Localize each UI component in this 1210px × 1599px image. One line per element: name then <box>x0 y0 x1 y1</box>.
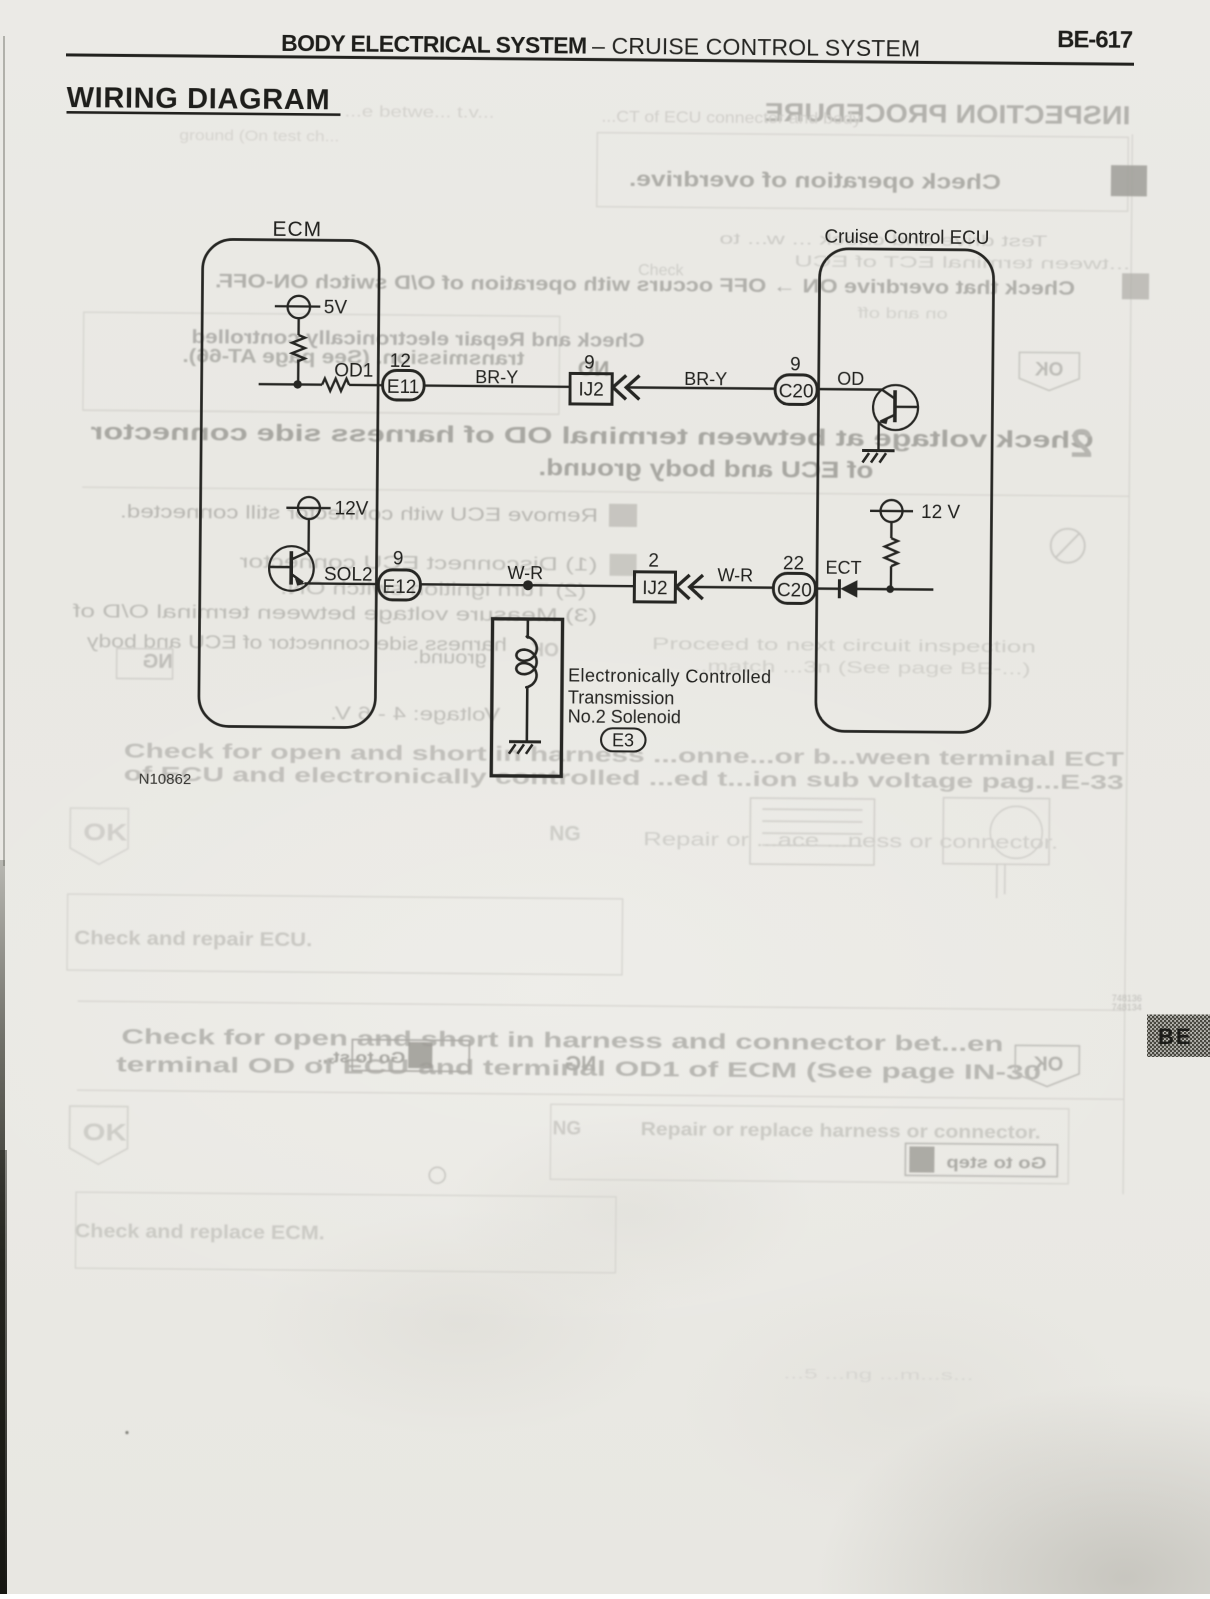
power supply 12 V in cruise ECU <box>870 500 961 523</box>
svg-text:BR-Y: BR-Y <box>475 367 518 387</box>
connector C20 pin 22 <box>773 553 815 603</box>
wire OD1 to E11 <box>349 384 382 387</box>
svg-text:12 V: 12 V <box>921 502 961 523</box>
svg-text:Go to st...: Go to st... <box>317 1049 405 1067</box>
svg-text:WIRING DIAGRAM: WIRING DIAGRAM <box>66 82 329 116</box>
svg-text:OD: OD <box>837 369 864 389</box>
svg-text:NG: NG <box>143 651 173 673</box>
node junction at OD1 <box>293 380 301 388</box>
wire 5V to resistor <box>297 318 300 335</box>
wire E12 to IJ2 label W-R <box>420 584 634 586</box>
svg-text:5V: 5V <box>324 297 348 318</box>
svg-text:OK: OK <box>82 1119 127 1146</box>
svg-text:– CRUISE CONTROL SYSTEM: – CRUISE CONTROL SYSTEM <box>592 33 920 62</box>
svg-text:IJ2: IJ2 <box>642 578 668 599</box>
ECM block box <box>199 239 380 728</box>
power supply 12V in ECM <box>286 497 369 520</box>
node junction to solenoid <box>523 580 533 590</box>
ground at solenoid <box>509 742 541 754</box>
wire diode to right stub <box>857 588 933 591</box>
wire C20 to transistor, label OD <box>817 388 882 391</box>
wire IJ2 to C20 label BR-Y <box>625 387 775 388</box>
svg-text:IJ2: IJ2 <box>578 379 604 400</box>
transistor Q1 in cruise ECU <box>873 385 918 430</box>
svg-text:22: 22 <box>783 553 804 574</box>
connector C20 pin 9 <box>775 354 817 404</box>
diode ECT <box>839 579 857 598</box>
svg-text:No.2 Solenoid: No.2 Solenoid <box>568 706 681 727</box>
junction connector IJ2 pin 9 <box>570 352 612 404</box>
arrow chevrons row2 <box>676 575 703 599</box>
svg-text:(1) Disconnect ECU connector: (1) Disconnect ECU connector <box>239 552 597 575</box>
svg-text:SOL2: SOL2 <box>324 564 373 585</box>
svg-text:C20: C20 <box>779 381 814 402</box>
svg-text:...CT of ECU connector and bod: ...CT of ECU connector and body <box>601 109 861 128</box>
resistor OD1 <box>322 378 349 391</box>
svg-text:OK: OK <box>83 819 128 846</box>
wire Q2 emitter to E12, label SOL2 <box>304 582 378 585</box>
solenoid block box <box>491 619 562 777</box>
svg-text:...5 ...ng ...m...s...: ...5 ...ng ...m...s... <box>783 1365 973 1383</box>
wire node to resistor OD1 <box>298 383 322 386</box>
svg-text:W-R: W-R <box>717 565 753 585</box>
svg-text:Cruise Control ECU: Cruise Control ECU <box>824 227 989 249</box>
svg-text:Check and replace ECM.: Check and replace ECM. <box>75 1221 325 1244</box>
wire 12V to Q2 collector <box>307 519 310 552</box>
wire E11 to IJ2 label BR-Y <box>424 386 570 387</box>
svg-text:12: 12 <box>390 351 411 372</box>
svg-text:Transmission: Transmission <box>568 687 675 708</box>
svg-text:Check voltage at between termi: Check voltage at between terminal OD of … <box>91 418 1094 453</box>
svg-text:...tween terminal ECT of ECU: ...tween terminal ECT of ECU <box>794 253 1130 273</box>
svg-text:OK: OK <box>1033 1053 1064 1075</box>
svg-text:12V: 12V <box>334 498 368 519</box>
svg-text:NG: NG <box>549 822 581 845</box>
ground at Q1 emitter <box>862 450 895 462</box>
svg-text:OK: OK <box>1034 359 1063 380</box>
svg-text:Check operation of overdrive.: Check operation of overdrive. <box>629 168 1001 194</box>
inductor coil No.2 solenoid <box>516 619 537 742</box>
svg-text:Repair or replace harness or c: Repair or replace harness or connector. <box>641 1119 1041 1142</box>
connector E12 pin 9 <box>378 548 420 600</box>
svg-text:Electronically Controlled: Electronically Controlled <box>568 665 771 687</box>
svg-text:748134: 748134 <box>1112 1002 1142 1012</box>
svg-text:9: 9 <box>790 354 801 375</box>
svg-text:Check and repair ECU.: Check and repair ECU. <box>74 928 312 951</box>
svg-text:W-R: W-R <box>507 563 543 583</box>
svg-text:E12: E12 <box>382 577 416 598</box>
svg-text:ground.: ground. <box>413 647 487 668</box>
svg-text:9: 9 <box>393 548 404 569</box>
svg-text:N10862: N10862 <box>139 771 192 788</box>
svg-text:OD1: OD1 <box>334 360 373 381</box>
junction connector IJ2 pin 2 <box>634 550 675 602</box>
arrow chevrons row1 <box>613 375 640 399</box>
resistor 12V pull-up <box>885 538 898 566</box>
wire Q1 emitter to ground <box>877 422 880 451</box>
svg-text:ECT: ECT <box>825 558 861 578</box>
svg-text:BE: BE <box>1158 1024 1193 1049</box>
connector E11 pin 12 <box>383 351 425 400</box>
svg-text:Check for open and short in ha: Check for open and short in harness and … <box>121 1026 1003 1057</box>
svg-text:...e betwe... t.v...: ...e betwe... t.v... <box>344 103 494 121</box>
svg-text:9: 9 <box>584 353 595 374</box>
wire IJ2 to C20 label W-R <box>689 586 773 589</box>
svg-text:Proceed to next circuit inspec: Proceed to next circuit inspection <box>652 634 1036 656</box>
page header rule <box>66 53 1134 65</box>
wire stub left <box>259 383 298 386</box>
Cruise Control ECU block box <box>816 249 994 733</box>
svg-text:ground (On test ch...: ground (On test ch... <box>179 127 339 145</box>
svg-text:E3: E3 <box>612 730 634 750</box>
svg-text:BE-617: BE-617 <box>1057 26 1133 54</box>
wire resistor to node <box>297 360 300 385</box>
resistor (5V pull-up) <box>292 335 305 361</box>
svg-text:on and off: on and off <box>857 305 948 323</box>
svg-text:BODY ELECTRICAL SYSTEM: BODY ELECTRICAL SYSTEM <box>281 30 587 59</box>
svg-text:BR-Y: BR-Y <box>684 369 727 389</box>
svg-text:NG: NG <box>565 1052 597 1075</box>
solenoid caption <box>568 665 772 728</box>
svg-text:(3) Measure voltage between te: (3) Measure voltage between terminal O/D… <box>72 601 598 626</box>
svg-text:2: 2 <box>1070 422 1093 466</box>
transistor Q2 in ECM <box>269 546 314 591</box>
node junction 12V pull-up <box>886 585 894 593</box>
svg-text:NG: NG <box>553 1118 582 1139</box>
wire resistor to node <box>890 566 893 589</box>
connector E3 <box>601 728 646 751</box>
svg-text:C20: C20 <box>777 580 812 601</box>
power supply 5V <box>275 296 348 319</box>
wire 12V to resistor <box>890 522 893 538</box>
wire C20 to diode, label ECT <box>815 587 839 590</box>
svg-text:Voltage: 4 - 6 V.: Voltage: 4 - 6 V. <box>330 703 500 724</box>
svg-text:Check that overdrive ON → OFF: Check that overdrive ON → OFF occurs wit… <box>215 271 1075 300</box>
svg-text:2: 2 <box>648 551 659 572</box>
svg-text:of ECU and body ground.: of ECU and body ground. <box>538 454 873 483</box>
svg-text:ECM: ECM <box>272 218 322 241</box>
svg-text:Go to step: Go to step <box>946 1153 1046 1173</box>
svg-text:E11: E11 <box>387 377 420 398</box>
